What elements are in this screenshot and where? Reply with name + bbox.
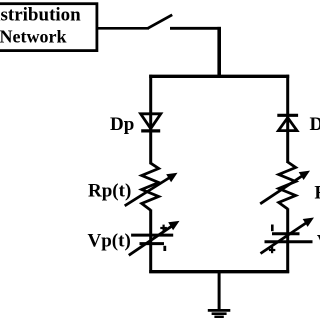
top bus wire (149, 75, 289, 78)
source Vp(t) (129, 221, 180, 255)
wire box to switch (97, 27, 149, 30)
svg-text:Network: Network (0, 26, 66, 46)
svg-text:Rp(t): Rp(t) (88, 180, 131, 201)
diode Dn (right branch) (277, 115, 298, 130)
bottom bus wire (149, 270, 289, 273)
svg-text:Vp(t): Vp(t) (88, 230, 131, 251)
left branch wire lower (149, 210, 152, 274)
svg-text:Distribution: Distribution (0, 5, 81, 26)
wire switch to corner (170, 27, 221, 30)
distribution network box (0, 4, 97, 51)
switch S1 blade (148, 15, 172, 28)
source Vn(t) (right branch) (261, 218, 315, 254)
resistor Rn(t) (right branch) (260, 162, 310, 209)
svg-text:D: D (310, 114, 320, 135)
left branch wire upper (149, 75, 152, 164)
svg-text:R: R (314, 182, 320, 203)
right branch wire lower (286, 208, 289, 273)
resistor Rp(t) (125, 163, 178, 210)
svg-text:Dp: Dp (110, 114, 134, 135)
feed wire down to top bus (217, 27, 221, 76)
ground (208, 272, 231, 317)
right branch wire upper (286, 75, 289, 163)
diode Dp (141, 114, 161, 131)
